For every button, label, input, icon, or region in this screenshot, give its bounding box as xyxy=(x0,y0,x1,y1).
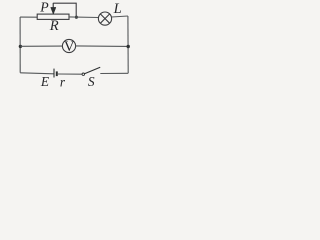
node left (dot) xyxy=(19,45,22,48)
battery E,r cell xyxy=(54,69,57,78)
resistor R (rheostat track) xyxy=(37,14,69,19)
wire right vertical xyxy=(127,16,129,73)
wire left vertical xyxy=(19,17,21,73)
wire wiper branch up and over xyxy=(53,3,76,17)
wire lamp to top-right corner xyxy=(112,16,128,17)
wire resistor to lamp xyxy=(69,16,99,19)
lamp L xyxy=(98,12,111,25)
wire bottom-left to battery xyxy=(20,73,53,74)
node junction top (dot) xyxy=(75,16,78,19)
svg-text:V: V xyxy=(64,39,75,55)
switch S blade xyxy=(85,67,101,74)
wire node to voltmeter xyxy=(20,45,62,47)
svg-text:r: r xyxy=(60,74,66,89)
svg-text:R: R xyxy=(49,18,59,34)
voltmeter V xyxy=(62,39,75,52)
switch S pivot xyxy=(82,73,84,75)
wire battery to switch xyxy=(58,73,82,75)
rheostat wiper arrow xyxy=(51,3,56,14)
svg-text:E: E xyxy=(40,74,49,89)
wire switch to bottom-right corner xyxy=(100,72,128,74)
wire voltmeter to right node xyxy=(76,45,129,48)
wire top-left horizontal xyxy=(20,16,37,18)
svg-text:S: S xyxy=(88,74,95,89)
svg-text:L: L xyxy=(113,1,122,17)
svg-text:P: P xyxy=(39,0,49,15)
node right (dot) xyxy=(127,45,130,48)
